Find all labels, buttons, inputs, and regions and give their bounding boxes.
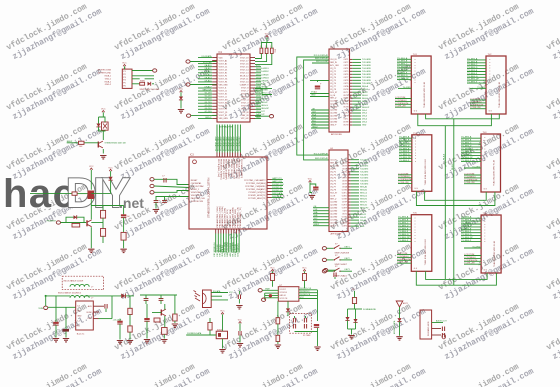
svg-text:DIG9-GRID5: DIG9-GRID5 <box>256 80 268 82</box>
svg-text:QE-BL4: QE-BL4 <box>204 77 212 79</box>
pin circle rtc gnd <box>262 298 266 301</box>
svg-text:VOUT_R1: VOUT_R1 <box>219 115 228 117</box>
TUB5 lower pin wires <box>397 253 411 264</box>
svg-text:LCD3PEGCM: LCD3PEGCM <box>464 179 477 181</box>
capacitors fm <box>442 327 446 339</box>
svg-text:o: o <box>484 235 485 237</box>
svg-text:VOUT_17: VOUT_17 <box>240 60 248 62</box>
VCC ds18b20 <box>220 311 225 332</box>
svg-text:GND: GND <box>256 117 261 119</box>
svg-text:CLK: CLK <box>312 111 317 113</box>
svg-text:QH-BL7: QH-BL7 <box>204 87 212 89</box>
svg-text:A/TL_OE8: A/TL_OE8 <box>330 64 338 67</box>
svg-text:ATF16V8B: ATF16V8B <box>331 133 342 136</box>
svg-text:TU-SEG-B: TU-SEG-B <box>461 140 472 142</box>
svg-text:OUT9: OUT9 <box>342 184 347 186</box>
svg-text:VOUT_4: VOUT_4 <box>241 100 248 102</box>
svg-text:OUTA: OUTA <box>343 85 349 88</box>
svg-text:DIG-22: DIG-22 <box>360 214 366 216</box>
wire crossover3 upper <box>426 271 488 279</box>
resistor R q base <box>152 313 161 323</box>
svg-text:VOUT_3: VOUT_3 <box>241 103 248 105</box>
svg-text:TU6-SEG: TU6-SEG <box>360 175 369 177</box>
svg-text:LCD9L-2M: LCD9L-2M <box>464 182 474 184</box>
svg-text:TU-SEG-G: TU-SEG-G <box>461 234 472 236</box>
ground fil right <box>120 249 126 252</box>
svg-text:TU-SEG-A: TU-SEG-A <box>461 216 472 219</box>
svg-text:OUTN: OUTN <box>343 125 349 127</box>
svg-text:CLK_IN: CLK_IN <box>242 112 249 114</box>
svg-text:VQ_P3: VQ_P3 <box>330 174 336 176</box>
svg-text:PE7/AIN8[UART1_CK]: PE7/AIN8[UART1_CK] <box>237 207 240 228</box>
transistor Q4 <box>88 191 95 220</box>
svg-text:o: o <box>489 62 490 64</box>
diode D1 with VCC and ground <box>178 89 184 113</box>
svg-text:LED-STATUS1: LED-STATUS1 <box>237 242 240 256</box>
svg-text:OUTG: OUTG <box>342 205 348 207</box>
svg-text:Q2_PAD: Q2_PAD <box>330 204 338 207</box>
svg-text:TU8-SEG: TU8-SEG <box>360 181 369 183</box>
svg-text:TU8-GRID: TU8-GRID <box>362 80 372 82</box>
svg-text:VCC: VCC <box>256 65 261 67</box>
svg-text:VOUT_J1: VOUT_J1 <box>219 91 227 93</box>
pin SWIM1 <box>150 178 189 185</box>
svg-text:OUT5: OUT5 <box>344 71 349 73</box>
svg-text:OUTH: OUTH <box>342 208 348 210</box>
svg-text:VOUT_B1: VOUT_B1 <box>219 63 228 65</box>
resistor R fil gate <box>72 192 77 195</box>
svg-text:KEY2: KEY2 <box>345 258 351 260</box>
svg-text:LCD3PEGCM: LCD3PEGCM <box>464 260 477 262</box>
wire bus IC1 to IC3 vertical bundle <box>216 125 241 153</box>
connector TUB4 box D <box>481 132 501 192</box>
wire rail V1 <box>443 126 446 280</box>
TUB3 left pin wires <box>399 136 412 162</box>
svg-text:AUDIO-OUT: AUDIO-OUT <box>436 320 447 323</box>
svg-text:o: o <box>415 226 416 228</box>
svg-text:TU3-SEG: TU3-SEG <box>360 165 369 167</box>
svg-text:VQ_P7: VQ_P7 <box>330 187 336 189</box>
svg-text:OUT3: OUT3 <box>342 165 347 167</box>
label SWITCH/DC5V-JLINK <box>140 89 160 91</box>
svg-text:SI-B: SI-B <box>312 117 317 119</box>
resistor network RN1 <box>260 46 276 53</box>
svg-text:TU5-GRID: TU5-GRID <box>362 71 372 73</box>
svg-text:DISP-DATA: DISP-DATA <box>272 192 283 195</box>
svg-text:BTTERY-GND: BTTERY-GND <box>98 73 111 75</box>
svg-text:TU-SEG-DP: TU-SEG-DP <box>467 79 479 81</box>
svg-text:o: o <box>415 158 416 160</box>
svg-text:SEG-F2: SEG-F2 <box>360 202 367 204</box>
diode D psu <box>121 294 125 299</box>
TUB1 left pin wires <box>397 57 411 80</box>
ground buzzer <box>100 156 106 159</box>
IC3 bottom pin stubs <box>216 229 239 234</box>
svg-text:VCC: VCC <box>311 92 316 94</box>
buzzer SP1 <box>102 122 109 130</box>
RN1 top bracket wire <box>261 43 271 49</box>
svg-text:TU-SEG-E: TU-SEG-E <box>399 148 410 150</box>
svg-text:o: o <box>415 218 416 220</box>
svg-text:MCLR_12: MCLR_12 <box>240 76 249 78</box>
IC4 inside pin names <box>330 159 348 227</box>
svg-text:o: o <box>415 76 416 78</box>
svg-text:QF-BL5: QF-BL5 <box>204 80 212 82</box>
svg-text:o: o <box>415 149 416 151</box>
svg-text:VQ_P5: VQ_P5 <box>330 180 336 182</box>
svg-text:o: o <box>415 155 416 157</box>
resistor R q right <box>173 295 177 323</box>
svg-text:GND-1: GND-1 <box>105 78 112 80</box>
svg-text:TU-SEG-F: TU-SEG-F <box>397 72 408 74</box>
wire gate filament1 <box>30 193 111 195</box>
svg-text:TU-SEG-D: TU-SEG-D <box>399 145 410 147</box>
svg-text:VPP_GR: VPP_GR <box>241 118 249 120</box>
wire long vertical V1 to IC4 <box>297 57 329 155</box>
svg-text:OUTJ: OUTJ <box>344 113 349 115</box>
svg-text:SI-D: SI-D <box>312 123 317 125</box>
connector J1 power switch <box>122 67 132 88</box>
svg-text:ATF16V8B: ATF16V8B <box>331 233 342 236</box>
svg-text:FILA-A: FILA-A <box>443 153 446 160</box>
svg-text:FILAMENT: FILAMENT <box>47 220 57 223</box>
svg-text:DAT_IN: DAT_IN <box>242 114 249 117</box>
svg-text:OUTE: OUTE <box>343 98 349 100</box>
svg-text:SI-A: SI-A <box>314 211 319 214</box>
svg-text:VOUT_13: VOUT_13 <box>240 73 248 75</box>
svg-text:LCD2SEGU: LCD2SEGU <box>470 101 482 103</box>
IC3 right inside pin names <box>244 179 266 200</box>
svg-text:OUTH: OUTH <box>343 107 349 109</box>
svg-text:C-FB: C-FB <box>87 318 92 320</box>
resistor R pullup rtc with VCC <box>270 268 275 287</box>
svg-text:CLAMP_9: CLAMP_9 <box>240 84 249 87</box>
svg-text:PB3/AIN3[TIM1_ETR]: PB3/AIN3[TIM1_ETR] <box>224 207 227 227</box>
svg-text:OUTA: OUTA <box>342 186 348 189</box>
svg-text:SEG-A: SEG-A <box>362 85 369 88</box>
pin circle right of IC1 <box>255 115 274 118</box>
svg-text:LCD1TOM: LCD1TOM <box>398 173 408 175</box>
wire bracket IC1 right mid <box>255 89 272 95</box>
ground ds18b20 <box>219 339 225 353</box>
svg-text:TU-SEG-D: TU-SEG-D <box>461 145 472 147</box>
svg-text:IC3: IC3 <box>190 154 194 157</box>
RN1 bottom wires to IC1 <box>255 54 272 65</box>
switch S3 <box>322 266 352 277</box>
svg-text:OUTM: OUTM <box>342 223 348 225</box>
wire crossover3 lower <box>416 271 496 285</box>
svg-text:TU1-GRID: TU1-GRID <box>362 59 372 61</box>
svg-text:5VIN: 5VIN <box>38 308 43 310</box>
label mosfet <box>105 143 127 145</box>
op U8 buck converter box <box>76 301 94 335</box>
svg-text:OUTD: OUTD <box>343 95 349 97</box>
IC4 right pin wires and labels <box>348 159 369 227</box>
svg-text:DS1302-IO: DS1302-IO <box>300 291 310 293</box>
svg-text:PB0/AIN0[TIM1_CH1N]: PB0/AIN0[TIM1_CH1N] <box>216 206 219 227</box>
svg-text:VCC2 CE: VCC2 CE <box>280 298 289 300</box>
svg-text:TU-SEG-F: TU-SEG-F <box>461 151 472 153</box>
DS1302 right wires <box>299 288 318 299</box>
svg-text:TU-SEG-C: TU-SEG-C <box>398 223 409 225</box>
svg-text:TU-SEG-X: TU-SEG-X <box>399 160 410 162</box>
svg-text:SER-OUT: SER-OUT <box>203 90 213 92</box>
svg-text:VOUT_F1: VOUT_F1 <box>219 76 228 78</box>
svg-text:G4-DIG: G4-DIG <box>205 102 212 104</box>
wire top rail q <box>140 294 177 296</box>
svg-text:VCC: VCC <box>300 297 305 299</box>
svg-text:ST-LCHB: ST-LCHB <box>203 62 212 64</box>
svg-text:VQ_P6: VQ_P6 <box>330 83 336 85</box>
svg-text:TU-SEG-G: TU-SEG-G <box>467 76 478 78</box>
op IC2 ATF16V8B box <box>329 47 350 136</box>
svg-text:DS1302-CE: DS1302-CE <box>272 190 283 192</box>
TUB4 grid wire <box>464 166 481 168</box>
svg-text:SER-DISPLAY: SER-DISPLAY <box>315 157 329 160</box>
capacitor C7 <box>162 176 166 183</box>
pin circle rtc right <box>324 269 336 272</box>
svg-text:SI-A: SI-A <box>312 113 317 116</box>
svg-text:TU-SEG-B: TU-SEG-B <box>461 220 472 222</box>
svg-text:o: o <box>489 71 490 73</box>
svg-text:o: o <box>484 146 485 148</box>
svg-text:TU-SEG-DP: TU-SEG-DP <box>461 237 473 239</box>
diode D rtc <box>286 301 290 316</box>
svg-text:SEG-F: SEG-F <box>362 101 369 103</box>
svg-text:o: o <box>415 74 416 76</box>
svg-text:o: o <box>415 65 416 67</box>
capacitor small rtc right <box>334 273 336 280</box>
IC3 top/bottom inside vertical pin names <box>216 159 243 228</box>
pin P1 circle <box>153 69 157 72</box>
svg-text:VOUT_I1: VOUT_I1 <box>219 88 227 90</box>
svg-text:Q7_PAD: Q7_PAD <box>330 219 338 222</box>
pin SWIM3 <box>150 191 189 195</box>
capacitor C fil red <box>121 206 131 233</box>
svg-text:TU4-GRID: TU4-GRID <box>362 68 372 70</box>
svg-text:DIG-32: DIG-32 <box>360 217 366 219</box>
svg-text:Buck IC: Buck IC <box>77 333 85 335</box>
svg-text:o: o <box>415 152 416 154</box>
svg-text:VSS/VCAP: VSS/VCAP <box>191 191 202 194</box>
svg-text:VDD: VDD <box>219 57 224 59</box>
svg-text:DS1302-CLK: DS1302-CLK <box>272 184 284 186</box>
wire crossover2 lower <box>416 191 495 205</box>
svg-text:PB1/AIN1[TIM1_CH2N]: PB1/AIN1[TIM1_CH2N] <box>218 206 221 227</box>
DS1302 left wires <box>265 293 279 300</box>
svg-text:DS1302-CE: DS1302-CE <box>300 294 311 296</box>
TUB6 left pin wires <box>461 216 481 242</box>
VCC for RN1 <box>265 34 270 43</box>
svg-text:FM-RADIO-MOD: FM-RADIO-MOD <box>427 321 430 336</box>
svg-text:GND: GND <box>77 316 82 318</box>
wire main rail psu <box>45 295 134 297</box>
svg-text:o: o <box>484 154 485 156</box>
svg-text:OUT6: OUT6 <box>344 74 349 76</box>
svg-text:VQ_P4: VQ_P4 <box>330 177 336 179</box>
svg-text:RF-433M-DATA: RF-433M-DATA <box>231 242 234 257</box>
svg-text:LCD3PEGCM: LCD3PEGCM <box>398 179 411 181</box>
svg-text:G_OE: G_OE <box>330 95 336 97</box>
svg-text:Q5_PAD: Q5_PAD <box>330 112 338 115</box>
svg-text:PC6/SPI_MOSI[T1]: PC6/SPI_MOSI[T1] <box>248 195 266 197</box>
svg-text:TU-SEG-X: TU-SEG-X <box>398 240 409 242</box>
svg-text:G1-DIG: G1-DIG <box>205 93 212 95</box>
wire DS18B20 data <box>186 332 216 335</box>
buzzer top wires <box>99 117 106 131</box>
svg-text:FILB-B: FILB-B <box>452 163 454 170</box>
svg-text:PB4/AIN4[I2C_SCL]: PB4/AIN4[I2C_SCL] <box>226 209 229 227</box>
svg-text:STN/NDS9435 100K 10K: STN/NDS9435 100K 10K <box>105 143 127 145</box>
svg-text:o: o <box>415 62 416 64</box>
svg-text:DISP-CLK: DISP-CLK <box>272 196 282 198</box>
svg-text:PB2/AIN2[TIM1_CH3N]: PB2/AIN2[TIM1_CH3N] <box>221 206 224 227</box>
svg-text:SER-DISPLAY: SER-DISPLAY <box>315 57 329 60</box>
svg-text:SEG-B2: SEG-B2 <box>360 190 367 192</box>
svg-text:TU-SEG-D: TU-SEG-D <box>467 67 478 69</box>
svg-text:DS1302-CLK: DS1302-CLK <box>300 288 312 290</box>
svg-text:VQ_P6: VQ_P6 <box>330 184 336 186</box>
svg-text:o: o <box>415 82 416 84</box>
svg-text:X1 VCC: X1 VCC <box>280 289 287 291</box>
svg-text:BTTERY-5V0B: BTTERY-5V0B <box>98 70 112 72</box>
svg-text:PD7/TLI[TIM1_CH4]: PD7/TLI[TIM1_CH4] <box>217 159 219 178</box>
svg-text:SEG-B: SEG-B <box>362 89 369 91</box>
capacitor C ds <box>237 320 243 347</box>
diode D fil bypass <box>66 215 84 222</box>
svg-text:TU-SEG-A: TU-SEG-A <box>461 136 472 139</box>
VCC at J1 <box>122 63 127 69</box>
resistor R rtc left column <box>275 301 281 348</box>
TUB6 grid wire <box>464 246 481 248</box>
wire long vertical V2 to IC4 <box>304 60 329 160</box>
mosfet Q1 <box>98 131 103 154</box>
svg-text:OUT5: OUT5 <box>342 171 347 173</box>
svg-text:LCD2SEGU: LCD2SEGU <box>395 100 407 102</box>
svg-text:VSS_GND: VSS_GND <box>219 85 229 87</box>
svg-text:OUTI: OUTI <box>344 110 349 112</box>
svg-text:SI-C: SI-C <box>312 120 317 122</box>
svg-text:TU-SEG-DP: TU-SEG-DP <box>461 157 473 159</box>
svg-text:OSCOUT/PA2: OSCOUT/PA2 <box>191 185 205 188</box>
TUB3 lower pin wires <box>398 173 412 184</box>
svg-text:G7-DIG: G7-DIG <box>205 111 212 113</box>
svg-text:LCD9L-2M: LCD9L-2M <box>395 106 405 108</box>
svg-text:DAT-OUT: DAT-OUT <box>256 113 265 116</box>
svg-text:SEG-E2: SEG-E2 <box>360 199 367 201</box>
svg-text:OUT9: OUT9 <box>344 83 349 85</box>
svg-text:433M-RF-DATA: 433M-RF-DATA <box>393 320 396 334</box>
svg-text:VOUT_E1: VOUT_E1 <box>219 73 228 75</box>
svg-text:SEG-G: SEG-G <box>362 104 369 106</box>
svg-text:TU-SEG-C: TU-SEG-C <box>461 223 472 225</box>
svg-text:VOUT_H1: VOUT_H1 <box>219 82 228 84</box>
svg-text:QC-BL2: QC-BL2 <box>204 71 212 73</box>
svg-text:VBAT: VBAT <box>265 288 271 291</box>
IC1 left pin stubs and wires <box>198 55 217 119</box>
TUB5 left pin wires <box>398 216 411 242</box>
svg-text:G3-DIG: G3-DIG <box>205 99 212 101</box>
svg-text:INDUCTANCE 100UH: INDUCTANCE 100UH <box>64 279 84 282</box>
svg-text:OUT8: OUT8 <box>344 80 349 82</box>
svg-text:o: o <box>484 160 485 162</box>
svg-text:TU-SEG-C: TU-SEG-C <box>461 143 472 145</box>
ground q5 <box>88 249 94 252</box>
svg-text:OUTN: OUTN <box>342 226 348 228</box>
svg-text:TU-SEG-B: TU-SEG-B <box>398 220 409 222</box>
svg-text:LCD1TOM: LCD1TOM <box>470 99 480 101</box>
svg-text:OUTB: OUTB <box>343 89 349 91</box>
svg-text:FM-AUDIO-IN: FM-AUDIO-IN <box>234 243 237 256</box>
inductor L2 <box>58 291 94 299</box>
svg-text:VCC: VCC <box>229 292 234 294</box>
svg-text:VQ_P7: VQ_P7 <box>330 86 336 88</box>
svg-text:SWITCH/DC5V-JLINK: SWITCH/DC5V-JLINK <box>140 89 160 91</box>
svg-text:o: o <box>415 241 416 243</box>
svg-text:LCD3PEGCM: LCD3PEGCM <box>470 104 483 106</box>
svg-text:GND_P: GND_P <box>330 125 337 127</box>
IC1 inside pin names <box>219 57 249 119</box>
svg-text:PG1/CANRX[UART2]: PG1/CANRX[UART2] <box>240 159 243 179</box>
svg-text:ANT1: ANT1 <box>403 302 408 305</box>
pin FIL input <box>47 220 87 225</box>
op IC1 HEF4094 box <box>217 52 250 122</box>
svg-text:VOUT_L1: VOUT_L1 <box>219 97 227 99</box>
svg-text:LCD1TOM: LCD1TOM <box>397 253 407 255</box>
svg-text:Q7_PAD: Q7_PAD <box>330 118 338 121</box>
svg-text:DS18B20-DATA: DS18B20-DATA <box>187 332 202 335</box>
svg-text:OUT1: OUT1 <box>344 59 349 61</box>
svg-text:OUTE: OUTE <box>342 199 348 201</box>
svg-text:VOUT_1: VOUT_1 <box>241 109 248 111</box>
svg-text:o: o <box>415 221 416 223</box>
svg-text:DIG5-SEG-D: DIG5-SEG-D <box>256 96 268 98</box>
wire crossover1 lower <box>418 114 492 126</box>
pin 5VIN <box>38 296 75 310</box>
svg-text:o: o <box>484 143 485 145</box>
svg-text:TU-SEG-X: TU-SEG-X <box>461 160 472 162</box>
svg-text:TU-GRID: TU-GRID <box>472 246 481 248</box>
svg-text:o: o <box>415 238 416 240</box>
connector TUB1 box A <box>411 54 431 114</box>
pin circle IC1 bottom left <box>187 114 218 117</box>
svg-text:TU-SEG-E: TU-SEG-E <box>397 69 408 71</box>
svg-text:GND-2: GND-2 <box>105 84 112 86</box>
capacitor C ir <box>236 291 242 309</box>
resistor R fb1 <box>128 296 132 340</box>
svg-text:PD1/SWIM/TIM3_CH2: PD1/SWIM/TIM3_CH2 <box>232 159 234 180</box>
svg-text:TUB1 9/14-DIG-VFD IV-18: TUB1 9/14-DIG-VFD IV-18 <box>425 239 427 266</box>
diode D meas1 <box>345 309 354 329</box>
svg-text:TU-SEG-X: TU-SEG-X <box>467 82 478 84</box>
svg-text:DIG1-SEG-DP: DIG1-SEG-DP <box>256 108 270 110</box>
svg-text:o: o <box>484 157 485 159</box>
svg-text:PE0/CLK_CCO[TIM1]: PE0/CLK_CCO[TIM1] <box>238 159 240 179</box>
svg-text:OUT1: OUT1 <box>342 159 347 161</box>
svg-text:VQ_P1: VQ_P1 <box>330 68 336 70</box>
svg-text:A/TL_OE8: A/TL_OE8 <box>330 164 338 167</box>
svg-text:OUTC: OUTC <box>343 92 349 94</box>
svg-text:SW: SW <box>77 311 80 313</box>
svg-text:o: o <box>484 224 485 226</box>
svg-text:QB-BL1: QB-BL1 <box>204 68 212 70</box>
svg-text:GND: GND <box>360 226 365 228</box>
svg-text:DIG-3: DIG-3 <box>362 116 367 118</box>
ground meas <box>348 329 356 339</box>
svg-text:TUB1 9/14-DIG-VFD IV-18: TUB1 9/14-DIG-VFD IV-18 <box>424 81 426 108</box>
svg-text:TU-GRID: TU-GRID <box>472 166 481 168</box>
svg-text:PC4/TIM1_CH4[ADC]: PC4/TIM1_CH4[ADC] <box>246 188 266 191</box>
